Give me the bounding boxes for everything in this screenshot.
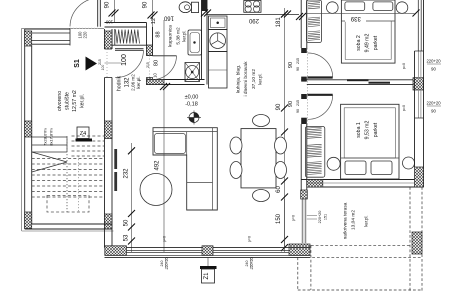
svg-text:7x28,0?m: 7x28,0?m bbox=[43, 128, 48, 146]
svg-text:parket: parket bbox=[373, 35, 379, 50]
svg-text:2,06 m2: 2,06 m2 bbox=[131, 74, 136, 91]
svg-text:8x17,8?m: 8x17,8?m bbox=[49, 128, 54, 146]
svg-text:natkrivena terasa: natkrivena terasa bbox=[342, 202, 348, 239]
svg-text:215: 215 bbox=[296, 58, 300, 64]
svg-text:p=0: p=0 bbox=[163, 236, 167, 242]
svg-text:108: 108 bbox=[105, 20, 113, 25]
svg-text:p=0: p=0 bbox=[292, 215, 296, 221]
svg-text:12: 12 bbox=[151, 18, 157, 24]
svg-text:215: 215 bbox=[146, 62, 150, 68]
svg-text:soba 1: soba 1 bbox=[356, 122, 362, 138]
svg-text:parket: parket bbox=[373, 122, 379, 137]
svg-text:181: 181 bbox=[276, 17, 282, 28]
svg-text:12,57 m2: 12,57 m2 bbox=[72, 90, 78, 112]
svg-text:-0,18: -0,18 bbox=[185, 102, 198, 108]
svg-text:150: 150 bbox=[276, 213, 282, 224]
svg-text:80: 80 bbox=[154, 60, 160, 66]
svg-text:ker.pl.: ker.pl. bbox=[80, 94, 86, 108]
svg-text:240: 240 bbox=[160, 261, 164, 267]
svg-text:ker.pl.: ker.pl. bbox=[258, 73, 263, 84]
svg-text:90: 90 bbox=[288, 62, 294, 68]
svg-text:soba 2: soba 2 bbox=[356, 35, 362, 51]
svg-text:220+20: 220+20 bbox=[426, 59, 441, 64]
svg-text:9,53 m2: 9,53 m2 bbox=[365, 121, 371, 140]
svg-text:220: 220 bbox=[83, 31, 88, 39]
svg-text:339: 339 bbox=[350, 15, 361, 21]
svg-text:492: 492 bbox=[155, 160, 161, 171]
svg-text:215: 215 bbox=[296, 100, 300, 106]
svg-text:160: 160 bbox=[163, 15, 174, 21]
svg-text:290: 290 bbox=[248, 17, 259, 23]
svg-text:220+20: 220+20 bbox=[165, 257, 169, 269]
svg-text:215: 215 bbox=[98, 59, 102, 65]
svg-text:37,10 m2: 37,10 m2 bbox=[251, 69, 257, 89]
svg-text:90: 90 bbox=[296, 109, 300, 113]
svg-text:100: 100 bbox=[121, 54, 128, 66]
svg-text:hodnik: hodnik bbox=[117, 75, 123, 91]
svg-text:10: 10 bbox=[153, 73, 158, 78]
svg-text:ker.pl.: ker.pl. bbox=[182, 30, 187, 41]
svg-text:50: 50 bbox=[124, 219, 130, 226]
svg-text:i dnevni boravak: i dnevni boravak bbox=[243, 61, 249, 97]
svg-text:220+20: 220+20 bbox=[318, 211, 322, 224]
svg-text:S1: S1 bbox=[74, 59, 81, 68]
svg-text:Z4: Z4 bbox=[80, 131, 86, 137]
svg-text:220+20: 220+20 bbox=[250, 257, 254, 269]
svg-text:90: 90 bbox=[431, 109, 436, 114]
svg-text:otvoreno: otvoreno bbox=[57, 91, 63, 111]
svg-text:stubište: stubište bbox=[65, 92, 71, 110]
svg-text:90: 90 bbox=[143, 1, 149, 8]
svg-text:p=0: p=0 bbox=[402, 63, 406, 69]
svg-text:232: 232 bbox=[124, 168, 130, 179]
svg-text:90: 90 bbox=[105, 1, 111, 8]
svg-text:±0,00: ±0,00 bbox=[185, 95, 199, 101]
svg-text:90: 90 bbox=[288, 101, 294, 107]
svg-text:ker.pl.: ker.pl. bbox=[136, 76, 141, 88]
svg-text:p=0: p=0 bbox=[402, 105, 406, 111]
svg-text:53: 53 bbox=[124, 234, 130, 241]
svg-text:kupaonica: kupaonica bbox=[168, 25, 174, 47]
svg-text:Z1: Z1 bbox=[204, 272, 210, 280]
svg-text:p=0: p=0 bbox=[248, 236, 252, 242]
svg-text:151: 151 bbox=[324, 214, 328, 220]
svg-text:88: 88 bbox=[156, 31, 162, 37]
svg-text:60: 60 bbox=[276, 186, 282, 193]
svg-text:90: 90 bbox=[296, 67, 300, 71]
svg-text:kuhinja, blag.: kuhinja, blag. bbox=[236, 65, 242, 93]
svg-text:9,49 m2: 9,49 m2 bbox=[365, 34, 371, 53]
svg-text:240: 240 bbox=[245, 261, 249, 267]
svg-text:90: 90 bbox=[276, 103, 282, 110]
svg-text:100: 100 bbox=[101, 65, 105, 71]
svg-text:13,04 m2: 13,04 m2 bbox=[351, 210, 357, 230]
svg-text:220+20: 220+20 bbox=[426, 101, 441, 106]
svg-text:90: 90 bbox=[431, 67, 436, 72]
svg-text:ker.pl.: ker.pl. bbox=[364, 215, 369, 226]
